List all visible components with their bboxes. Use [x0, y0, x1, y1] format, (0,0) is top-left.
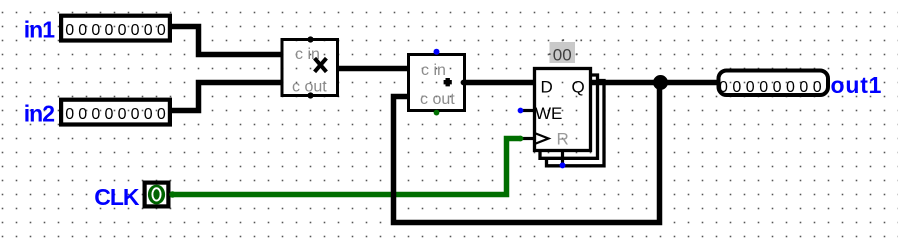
svg-text:c out: c out: [420, 91, 455, 108]
svg-text:out1: out1: [831, 72, 883, 98]
svg-text:in1: in1: [24, 17, 55, 43]
register clock value dot: [518, 136, 524, 142]
register U3 stacked outline 3: [547, 81, 605, 166]
junction node: [653, 75, 668, 90]
adder output dot: [461, 80, 467, 86]
register R stub: [561, 151, 564, 166]
register WE stub: [521, 109, 535, 112]
svg-text:WE: WE: [535, 104, 562, 123]
svg-text:CLK: CLK: [94, 184, 140, 210]
label CLK: [94, 184, 140, 210]
wire adder to register D: [465, 80, 535, 86]
adder U2: [409, 55, 465, 111]
output pin out1: [719, 71, 829, 97]
adder carry-out dot: [434, 110, 440, 116]
wire register Q to out1: [591, 80, 717, 86]
wire CLK to register clock: [171, 139, 521, 195]
svg-text:Q: Q: [572, 78, 585, 97]
label out1: [831, 72, 883, 98]
wire multiplier to adder: [338, 66, 409, 72]
register clock stub: [521, 137, 535, 140]
svg-text:00000000: 00000000: [719, 79, 826, 96]
multiplier carry-out dot: [307, 92, 313, 98]
svg-text:R: R: [557, 130, 569, 149]
adder carry-in dot: [434, 49, 440, 55]
wire in1 to multiplier: [171, 27, 283, 55]
input pin in1: [61, 16, 170, 41]
register value label 00: [549, 39, 582, 64]
label in2: [24, 101, 54, 127]
register U3 main body: [535, 69, 591, 151]
wire feedback loop: [394, 83, 660, 223]
clock port dot: [169, 191, 175, 197]
svg-text:00000000: 00000000: [65, 106, 170, 123]
clock input CLK: [145, 183, 169, 207]
svg-text:00000000: 00000000: [65, 22, 170, 39]
input pin in2: [61, 100, 170, 125]
label in1: [24, 17, 55, 43]
svg-text:in2: in2: [24, 101, 54, 127]
wire in2 to multiplier: [171, 83, 283, 111]
register clock triangle: [535, 133, 549, 144]
register U3 stacked outline 2: [540, 75, 598, 158]
multiplier U1: [282, 40, 338, 96]
svg-text:c in: c in: [421, 62, 446, 79]
register R floating dot: [560, 162, 566, 168]
register WE floating dot: [518, 108, 524, 114]
svg-text:D: D: [541, 78, 553, 97]
svg-text:00: 00: [553, 45, 572, 64]
multiplier carry-in dot: [307, 36, 313, 42]
